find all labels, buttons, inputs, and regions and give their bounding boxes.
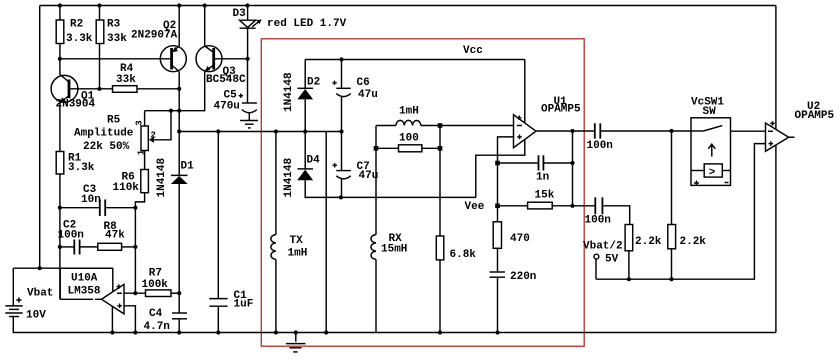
junction node Q1 base / R4 — [97, 87, 181, 91]
capacitor C1 — [209, 290, 253, 311]
svg-text:22k 50%: 22k 50% — [83, 141, 130, 153]
wire 100n to switch and U2 minus — [601, 130, 691, 132]
wire D2 cathode stem — [304, 60, 306, 89]
junction node Vcc / C6 — [339, 57, 343, 61]
svg-text:470: 470 — [510, 233, 530, 245]
wire mid node to ground column x326 — [325, 132, 327, 333]
wire D3 cathode to Q3 base node — [247, 28, 249, 59]
wire Q3 base row — [215, 58, 248, 60]
wire 2.2k-2 top riser — [671, 131, 673, 225]
wire 15k right lead — [552, 205, 572, 207]
resistor 15k — [528, 190, 555, 209]
op-amp U10A label box — [60, 268, 113, 299]
highlight box (red) — [261, 39, 584, 346]
resistor R2 — [56, 19, 93, 46]
wire 6.8k column — [439, 126, 441, 237]
ground symbol stem — [295, 333, 297, 342]
svg-text:33k: 33k — [116, 74, 136, 86]
svg-text:3: 3 — [135, 120, 145, 125]
wire U10A V- pin — [111, 306, 113, 332]
wire Q2 base row — [60, 58, 170, 60]
wire U1 Vcc pin — [524, 60, 526, 123]
op-amp U2 — [766, 101, 835, 151]
svg-text:C4: C4 — [149, 308, 163, 320]
svg-text:2N2907A: 2N2907A — [131, 30, 178, 42]
svg-text:>: > — [709, 167, 716, 179]
svg-text:100n: 100n — [585, 215, 611, 227]
capacitor C7 — [333, 161, 379, 182]
wire R6 bottom jog to C3 row — [135, 193, 144, 208]
svg-text:Vcc: Vcc — [463, 45, 483, 57]
LED D3 — [233, 8, 347, 30]
wire node column x135 down to U10A minus input — [134, 208, 136, 294]
wire U10A output stub — [95, 298, 102, 300]
svg-text:33k: 33k — [107, 33, 127, 45]
svg-text:1: 1 — [136, 149, 146, 155]
wire battery top lead — [12, 268, 14, 306]
wire Q2 collector column down through D1 to C4 — [178, 72, 180, 176]
wire left border (Vbat+ to top rail) — [39, 6, 41, 269]
svg-text:D1: D1 — [181, 161, 195, 173]
wire Q1 emitter down through R1 C3 C2 to U10A box — [59, 103, 61, 299]
wire 1n left lead — [498, 162, 538, 164]
source Vbat/2 — [583, 241, 623, 266]
svg-text:Amplitude: Amplitude — [74, 128, 134, 140]
svg-text:R2: R2 — [70, 19, 83, 31]
wire U1 plus input down — [498, 137, 514, 222]
wire RX bottom stem — [375, 259, 377, 332]
ground (C5) — [240, 121, 258, 128]
svg-text:10V: 10V — [26, 310, 46, 322]
svg-text:15mH: 15mH — [381, 244, 407, 256]
junction node pot top row — [169, 109, 181, 113]
svg-text:Vbat: Vbat — [27, 288, 53, 300]
wire D2 anode to rail — [304, 99, 306, 131]
svg-text:1N4148: 1N4148 — [283, 157, 295, 197]
svg-text:red LED 1.7V: red LED 1.7V — [267, 18, 347, 30]
svg-text:47u: 47u — [359, 170, 379, 182]
ground symbol — [286, 344, 305, 352]
resistor 100 — [399, 133, 422, 152]
wire bias row to U2 plus input — [596, 144, 766, 280]
junctions on top supply rail — [58, 3, 250, 7]
resistor 470 — [493, 222, 530, 249]
wire 470 to 220n stem — [497, 248, 499, 272]
transistor Q3 — [196, 46, 246, 86]
svg-text:Vee: Vee — [465, 201, 485, 213]
inductor RX — [371, 233, 407, 259]
resistor 2.2k first — [625, 225, 662, 251]
svg-text:Vbat/2: Vbat/2 — [583, 241, 623, 253]
wire 100 right lead — [422, 147, 440, 149]
svg-text:LM358: LM358 — [68, 286, 101, 298]
wire D3 anode stem — [247, 6, 249, 21]
wire Q1 base row to R4 — [70, 88, 112, 90]
wire C5 top stem — [247, 59, 249, 103]
svg-text:TX: TX — [290, 235, 304, 247]
wire R4 right lead — [137, 88, 179, 90]
svg-text:D2: D2 — [307, 77, 320, 89]
inductor 1mH — [396, 106, 421, 126]
wire D4 anode to Vee run — [305, 180, 476, 197]
wire 100n2 right lead to 2.2k-1 — [603, 206, 630, 225]
junction nodes bias row — [627, 277, 674, 281]
capacitor C2 — [58, 220, 84, 255]
wire feedback column x572 — [572, 131, 574, 206]
capacitor C3 — [81, 184, 105, 216]
svg-text:15k: 15k — [535, 190, 555, 202]
resistor R1 — [56, 152, 95, 175]
wire pot bottom to R6 — [144, 151, 146, 170]
svg-text:2N3904: 2N3904 — [56, 99, 96, 111]
svg-text:100n: 100n — [587, 140, 613, 152]
svg-text:470u: 470u — [214, 101, 240, 113]
wire 100 left lead — [376, 147, 399, 149]
wire U2 V+ pin from top rail — [775, 6, 777, 130]
svg-text:1uF: 1uF — [234, 299, 254, 311]
wire Q3 collector stem to top rail — [204, 6, 206, 47]
svg-text:OPAMP5: OPAMP5 — [795, 110, 835, 122]
junction nodes C2/R8 row — [58, 245, 138, 249]
wire U1 output row to 100n — [536, 130, 594, 132]
transistor Q1 — [51, 75, 95, 111]
diode D1 — [156, 157, 194, 197]
svg-text:47k: 47k — [105, 230, 125, 242]
resistor 6.8k — [436, 236, 476, 261]
junctions on ground rail — [110, 330, 499, 334]
wire Q3 emitter to pot top row — [145, 72, 205, 111]
wire main signal rail y131 — [179, 131, 341, 133]
resistor 2.2k second — [668, 225, 707, 249]
inductor TX — [271, 235, 307, 260]
svg-text:6.8k: 6.8k — [450, 249, 477, 261]
svg-text:3.3k: 3.3k — [66, 33, 93, 45]
svg-text:100k: 100k — [142, 279, 169, 291]
transistor Q2 — [131, 20, 186, 72]
svg-text:2.2k: 2.2k — [635, 236, 662, 248]
svg-text:10n: 10n — [81, 194, 101, 206]
svg-text:SW: SW — [703, 106, 717, 118]
svg-text:OPAMP5: OPAMP5 — [541, 104, 581, 116]
resistor R3 — [96, 19, 127, 46]
wire Vee riser and U1 V- pin — [476, 140, 525, 198]
svg-text:2.2k: 2.2k — [680, 236, 707, 248]
wire C7 stems — [341, 132, 343, 171]
switch VcSW1 — [691, 97, 731, 186]
wire battery bottom lead — [13, 317, 776, 333]
svg-text:47u: 47u — [358, 89, 378, 101]
junction squares — [374, 123, 500, 208]
svg-text:100: 100 — [399, 133, 419, 145]
svg-text:U10A: U10A — [71, 273, 98, 285]
wire Q2 emitter stem to top rail — [178, 6, 180, 47]
wire pot wiper tie — [153, 111, 172, 140]
capacitor C6 — [332, 77, 378, 101]
svg-text:C6: C6 — [357, 77, 370, 89]
junction nodes U10A minus row — [133, 291, 181, 295]
wire R2 bottom to Q1 collector — [59, 44, 61, 75]
wire U10A minus input row with R7 — [124, 292, 146, 294]
wire R3 stems — [99, 6, 101, 21]
wire 15k row to 100n2 — [573, 205, 595, 207]
junction nodes C3 row — [58, 206, 138, 210]
svg-text:1mH: 1mH — [288, 248, 308, 260]
op-amp U10A — [102, 284, 125, 314]
junction node Vbat+ / border — [38, 266, 42, 270]
junction node switch input — [669, 129, 673, 133]
capacitor C4 — [144, 308, 188, 333]
svg-text:R7: R7 — [149, 268, 162, 280]
svg-text:R3: R3 — [107, 19, 121, 31]
svg-text:2: 2 — [151, 131, 156, 141]
wire C6 stems — [341, 60, 343, 89]
diode D4 — [283, 155, 320, 198]
wire C2 R8 row — [60, 246, 74, 248]
svg-text:110k: 110k — [113, 182, 140, 194]
diode D2 — [283, 72, 320, 112]
svg-text:R5: R5 — [107, 115, 121, 127]
svg-text:5V: 5V — [605, 254, 619, 266]
wire pot top stem — [144, 111, 146, 126]
wire ground rail right corner up to U2 V- pin — [775, 145, 777, 333]
wire 1mH left lead — [376, 125, 396, 127]
wire TX top stem — [275, 132, 277, 235]
wire TX bottom stem — [275, 259, 277, 332]
battery Vbat — [5, 288, 53, 322]
svg-text:BC548C: BC548C — [206, 74, 246, 86]
wire C3 row — [60, 207, 99, 209]
svg-text:1mH: 1mH — [399, 106, 419, 118]
wire 2.2k bottom stems — [628, 251, 630, 279]
svg-text:100n: 100n — [58, 230, 84, 242]
resistor R8 — [98, 221, 125, 250]
wire Vbat+ row to U10A box — [13, 267, 113, 269]
svg-text:220n: 220n — [510, 271, 536, 283]
wire 220n bottom stem — [497, 277, 499, 332]
junction nodes U1 feedback column — [570, 129, 574, 208]
junction node Vee / C7 — [339, 195, 343, 199]
wire 15k left lead — [498, 205, 528, 207]
junction node Q2 base row — [58, 57, 250, 61]
svg-text:D3: D3 — [233, 8, 247, 20]
wire LC filter left riser — [375, 126, 377, 235]
capacitor C5 — [214, 90, 257, 121]
wire C1 column — [217, 132, 219, 299]
junctions on main signal rail — [177, 129, 344, 133]
wire Vbat/2 stem — [595, 259, 597, 279]
svg-text:3.3k: 3.3k — [68, 162, 95, 174]
capacitor 100n (feedback to bias) — [585, 197, 611, 226]
svg-text:1N4148: 1N4148 — [283, 72, 295, 112]
wire D4 cathode stem — [304, 132, 306, 169]
wire Vcc row from D2 to U1 — [305, 59, 525, 61]
wire U10A plus input to ground — [124, 306, 135, 333]
svg-text:4.7n: 4.7n — [144, 321, 170, 333]
capacitor 100n (U1 output) — [587, 123, 613, 152]
resistor R4 — [113, 63, 138, 92]
op-amp U1 — [514, 96, 582, 148]
resistor R6 — [113, 170, 149, 195]
wire 1mH right lead to U1 minus input — [421, 125, 514, 127]
svg-text:1n: 1n — [536, 172, 549, 184]
resistor R7 — [142, 268, 172, 297]
wire 1n right lead — [544, 162, 573, 164]
capacitor 220n — [490, 271, 537, 283]
wire C4 bottom stem — [178, 319, 180, 333]
potentiometer R5 — [74, 115, 156, 156]
svg-text:1N4148: 1N4148 — [156, 157, 168, 197]
node x60 column: R2 top stem — [59, 6, 61, 21]
svg-text:D4: D4 — [307, 155, 321, 167]
capacitor 1n — [536, 155, 549, 183]
wire top supply rail — [40, 5, 776, 7]
